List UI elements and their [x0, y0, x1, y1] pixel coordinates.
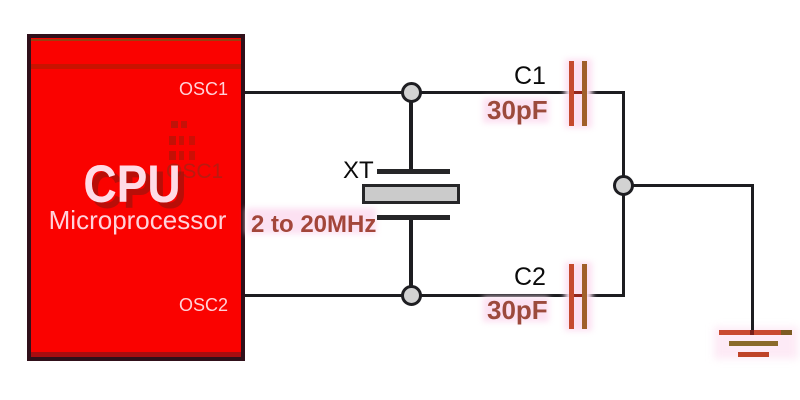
wire corner down to node C	[622, 91, 625, 186]
label C1	[514, 64, 546, 89]
wire crystal bottom to node B	[409, 218, 413, 296]
wire node C to ground corner	[624, 184, 754, 187]
CPU name text	[17, 158, 247, 211]
pin label OSC1	[179, 80, 228, 98]
ground	[0, 0, 800, 1]
capacitor C2	[0, 0, 800, 1]
CPU block U1	[27, 34, 245, 361]
label XT	[343, 159, 374, 183]
wire down to ground	[751, 185, 754, 332]
ghost text OSC1 inside CPU	[166, 161, 223, 182]
wire C1 right plate to corner	[586, 91, 625, 94]
wire node C down to C2 corner	[622, 186, 625, 297]
label 2 to 20MHz	[0, 0, 800, 1]
wire C2 right plate to corner	[586, 294, 625, 297]
wire node A to crystal top	[409, 93, 413, 171]
junction node C	[613, 175, 634, 196]
wire OSC2 to C2	[245, 294, 571, 297]
junction node B	[401, 285, 422, 306]
label C2	[514, 265, 546, 290]
crystal XT	[0, 0, 800, 1]
pin label OSC2	[179, 296, 228, 314]
label 30pF C2	[0, 0, 800, 1]
junction node A	[401, 82, 422, 103]
capacitor C1	[0, 0, 800, 1]
wire OSC1 to C1	[245, 91, 571, 94]
Microprocessor text	[0, 207, 275, 233]
label 30pF C1	[0, 0, 800, 1]
